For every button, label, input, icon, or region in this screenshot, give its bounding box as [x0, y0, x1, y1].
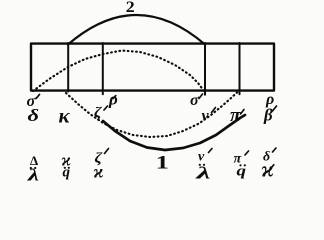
prime of delta' (fraction) — [273, 148, 277, 152]
svg-text:ν: ν — [198, 150, 205, 165]
prime of nu' (fraction) — [209, 149, 213, 153]
prime of beta' (node) — [273, 106, 277, 111]
svg-text:σ: σ — [190, 92, 199, 109]
prime of pi' (node) — [241, 110, 245, 115]
svg-text:2: 2 — [126, 0, 135, 16]
diaeresis of q-ddot (left fraction) — [64, 167, 66, 169]
tail of kappa-script (last fraction) — [271, 165, 274, 169]
diaeresis of lambda-ddot (right fraction) — [199, 164, 201, 166]
dotted arc lower (below rectangle) — [66, 93, 237, 138]
prime of zeta' (fraction) — [105, 149, 109, 154]
prime of zeta' (node) — [104, 106, 108, 110]
dotted arc upper (inside rectangle) — [33, 51, 204, 92]
prime of nu' (node) — [212, 108, 216, 113]
arc 2 (upper solid arc) — [68, 15, 205, 45]
svg-text:ν: ν — [202, 108, 210, 125]
svg-text:κ: κ — [59, 104, 71, 128]
divider at sigma (right) — [204, 43, 206, 95]
prime of sigma' left — [36, 94, 40, 98]
arc 1 (lower solid arc) — [103, 115, 245, 150]
prime of sigma' right — [199, 94, 203, 99]
divider at pi — [239, 43, 241, 94]
svg-text:ζ: ζ — [94, 105, 102, 121]
tick of rho (left, row1) — [113, 96, 116, 99]
diaeresis of lambda-ddot (left fraction) — [30, 167, 32, 169]
svg-text:1: 1 — [156, 151, 169, 172]
prime of pi' (fraction) — [245, 151, 249, 155]
svg-text:π: π — [230, 105, 241, 126]
main rectangle (band) — [31, 44, 274, 91]
diaeresis of q-ddot (right fraction) — [239, 164, 241, 166]
svg-text:ϰ: ϰ — [262, 157, 274, 182]
svg-text:δ: δ — [28, 106, 40, 125]
svg-text:β: β — [263, 106, 273, 125]
divider at rho (left) — [102, 43, 104, 94]
svg-text:λ: λ — [26, 166, 39, 185]
divider at kappa — [67, 43, 69, 92]
svg-text:λ: λ — [195, 164, 212, 183]
svg-text:ϰ: ϰ — [94, 162, 104, 182]
